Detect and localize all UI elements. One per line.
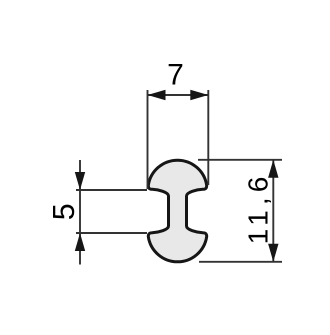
dimension 5: bottom arrowhead (outside, pointing up) [75, 233, 85, 251]
dimension 7: left arrowhead [148, 90, 166, 100]
dimension 11,6: bottom arrowhead (pointing down) [268, 244, 278, 262]
dimension 11,6: dimension line [272, 160, 274, 262]
dimension 7: left extension line [147, 90, 149, 189]
dimension 11,6: top arrowhead (pointing up) [268, 160, 278, 178]
dimension 11,6: bottom extension line [199, 261, 282, 263]
dimension 7: right arrowhead [190, 90, 208, 100]
dimension 5: top arrowhead (outside, pointing down) [75, 172, 85, 190]
dimension 7: dimension line [148, 94, 209, 96]
svg-text:7: 7 [167, 59, 184, 92]
profile body (I-shaped dog-bone cross-section) [148, 160, 206, 262]
svg-text:5: 5 [47, 203, 81, 220]
svg-text:11,6: 11,6 [242, 172, 273, 245]
dimension 7: right extension line [207, 90, 209, 185]
dimension 11,6: top extension line [198, 159, 282, 161]
dimension 5: dimension line [79, 160, 81, 265]
dimension 5: top extension line [76, 189, 147, 191]
dimension 5: bottom extension line [76, 232, 147, 234]
